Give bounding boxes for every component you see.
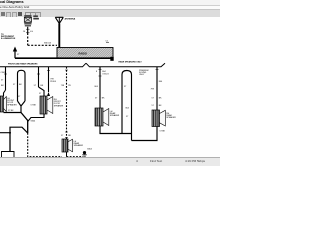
speaker LH rear premium [95, 108, 120, 126]
left section bracket [0, 63, 86, 67]
svg-text:804: 804 [95, 86, 99, 88]
toolbar [0, 9, 220, 18]
svg-text:RADIO: RADIO [79, 52, 87, 56]
speaker pair loop (left arch) [13, 70, 25, 101]
svg-text:57: 57 [126, 116, 129, 118]
bottom baseline to RH rear speaker [132, 126, 158, 141]
svg-text:C1: C1 [106, 40, 110, 42]
svg-text:SPEAKER: SPEAKER [54, 104, 64, 107]
svg-text:BK: BK [19, 84, 22, 86]
svg-text:14: 14 [23, 31, 26, 33]
svg-text:57: 57 [152, 105, 155, 107]
wire drop to RH front speaker [34, 67, 44, 96]
svg-text:57: 57 [17, 54, 20, 56]
svg-text:PK/LB: PK/LB [50, 81, 56, 83]
main bus wire under radio [15, 57, 113, 59]
wire drop to rear speaker (right section) [95, 67, 110, 108]
svg-text:G304: G304 [87, 149, 93, 151]
svg-text:57: 57 [39, 93, 42, 95]
menu text row [0, 5, 220, 10]
svg-text:ILLUMINATION: ILLUMINATION [1, 37, 16, 40]
svg-text:BK: BK [41, 85, 44, 87]
svg-text:OG/LG: OG/LG [102, 73, 109, 75]
svg-text:BK: BK [102, 97, 105, 99]
dashed wire to radio [28, 44, 57, 46]
svg-text:ANTENNA: ANTENNA [65, 18, 76, 21]
svg-text:804: 804 [126, 108, 130, 110]
svg-text:57: 57 [13, 84, 16, 86]
text TO INSTRUMENT ILLUMINATION [1, 34, 16, 40]
svg-text:FRONT AND REAR SPEAKERS: FRONT AND REAR SPEAKERS [8, 63, 38, 66]
svg-text:57: 57 [124, 86, 127, 88]
svg-text:S304: S304 [31, 121, 37, 123]
RH front speaker return wire [28, 114, 44, 122]
ground G304 [82, 149, 92, 157]
speaker return baseline left [100, 126, 132, 134]
svg-text:SPEAKER: SPEAKER [166, 116, 176, 119]
fuse right labels 15A FUSE [33, 15, 39, 19]
wire from fuse with color code 14 LG [23, 27, 33, 33]
svg-text:57: 57 [61, 135, 64, 137]
dashed run to ground point [67, 156, 84, 158]
svg-text:804: 804 [159, 81, 163, 83]
svg-text:57: 57 [95, 97, 98, 99]
svg-text:57 BK: 57 BK [8, 110, 14, 112]
svg-text:57: 57 [152, 97, 155, 99]
up arrow to bus [13, 47, 20, 59]
lower-left branch wire [0, 127, 28, 151]
svg-text:580 LB: 580 LB [44, 42, 51, 44]
antenna symbol [55, 17, 63, 23]
svg-text:PK: PK [68, 85, 71, 87]
speaker LH rear [62, 139, 84, 152]
wire stub 798 [47, 67, 57, 96]
wire drop to LH front speaker [1, 67, 8, 96]
status bar [0, 157, 220, 166]
svg-text:57 BK: 57 BK [31, 105, 37, 107]
svg-text:REAR SPEAKERS ONLY: REAR SPEAKERS ONLY [119, 61, 143, 64]
dashed wire down from fuse [27, 33, 29, 45]
ground box G305 [2, 152, 15, 159]
svg-text:57: 57 [34, 85, 37, 87]
svg-text:ONLY: ONLY [139, 74, 145, 76]
wire loop merge [18, 101, 26, 113]
speaker pair loop (right arch) [122, 71, 132, 141]
dashed wire to ground run [28, 133, 62, 157]
connector C1 label [106, 40, 110, 42]
svg-text:SPEAKER: SPEAKER [110, 114, 120, 117]
svg-text:57: 57 [1, 80, 4, 82]
svg-text:57: 57 [18, 96, 21, 98]
diagram canvas [0, 17, 220, 157]
radio unit U1 [57, 48, 114, 61]
speaker RH rear [152, 110, 176, 127]
svg-text:798: 798 [61, 85, 65, 87]
svg-text:8: 8 [96, 71, 98, 73]
antenna mast wire [58, 24, 60, 48]
svg-text:798: 798 [151, 88, 155, 90]
right section bracket [86, 63, 165, 67]
splice S304 junction [21, 105, 37, 134]
LH rear speaker ground wire [66, 152, 68, 157]
speaker RH front [40, 96, 64, 114]
wire drop far right [139, 67, 163, 110]
svg-text:57 BK: 57 BK [160, 130, 166, 132]
svg-text:BK: BK [159, 97, 162, 99]
dashed wire drop to LH rear speaker [61, 67, 72, 139]
window title bar [0, 0, 220, 5]
wire LH front speaker return [4, 110, 22, 113]
svg-text:BK: BK [68, 135, 71, 137]
svg-text:BK: BK [1, 85, 4, 87]
svg-text:LG: LG [30, 31, 33, 33]
fuse F1 block (HOT AT ALL TIMES) [24, 15, 31, 27]
svg-text:BK: BK [159, 105, 162, 107]
svg-text:SPEAKER: SPEAKER [74, 144, 84, 147]
speaker LH front (edge cut) [0, 96, 17, 112]
svg-text:SPEAKER: SPEAKER [7, 103, 17, 106]
